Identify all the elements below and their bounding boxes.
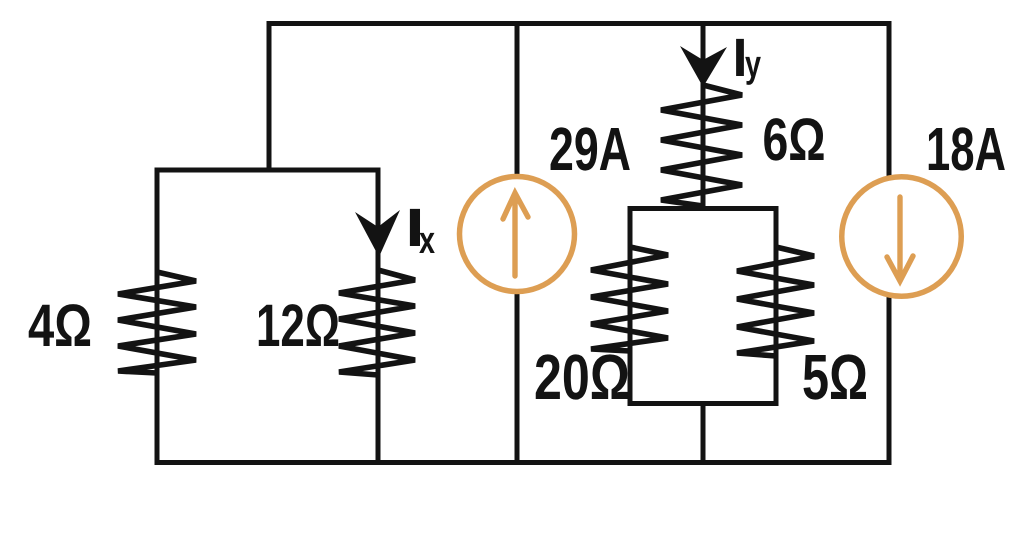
resistor R4 20ohm zigzag — [591, 247, 668, 351]
label Iy — [736, 39, 744, 76]
wire bottom rail with left and right risers — [157, 294, 889, 463]
label Iy subscript — [745, 57, 761, 85]
wire top rail with left and right drops — [269, 24, 889, 177]
wire 12ohm branch between Ix arrow and resistor — [376, 250, 381, 274]
label 18A — [929, 128, 949, 170]
resistor R2 12ohm zigzag — [339, 270, 415, 375]
label 20ohm — [536, 354, 560, 399]
arrow Ix (filled, pointing down) — [355, 210, 400, 257]
current source I2 arrow down — [887, 197, 913, 281]
current source I1 arrow up — [503, 193, 528, 276]
wire box-bottom to bottom rail — [701, 401, 706, 463]
arrow Iy (filled, pointing down) — [680, 46, 727, 87]
label Ix — [410, 209, 420, 246]
wire 29A branch lower — [515, 292, 520, 463]
resistor R5 5ohm zigzag — [737, 247, 814, 356]
current source I2 18A circle — [842, 177, 962, 297]
label 5ohm — [803, 355, 827, 400]
box around 20ohm and 5ohm — [630, 209, 776, 404]
wire inner loop top: left vertical + top + right vertical — [157, 170, 378, 463]
wire 12ohm branch lower — [376, 372, 381, 463]
current source I1 29A circle — [460, 177, 575, 292]
label 12ohm — [259, 305, 279, 346]
resistor R1 4ohm zigzag — [118, 272, 196, 373]
wire 6ohm branch top stub — [701, 24, 706, 211]
label Ix subscript — [419, 233, 435, 253]
resistor R3 6ohm zigzag — [661, 85, 742, 206]
label 4ohm — [29, 305, 54, 346]
wire 29A branch top — [515, 24, 520, 179]
label 29A — [551, 127, 573, 170]
label 6ohm — [764, 118, 786, 160]
